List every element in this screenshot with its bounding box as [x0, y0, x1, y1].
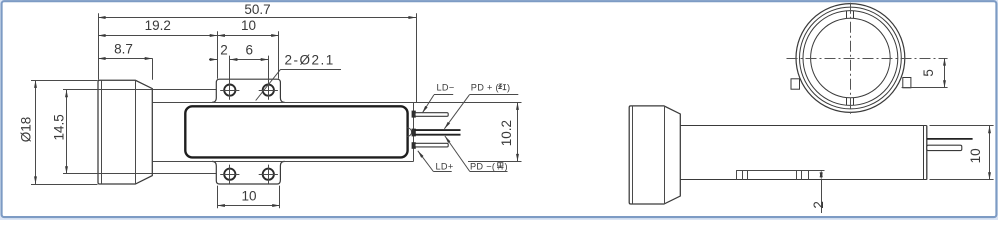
svg-text:50.7: 50.7	[244, 2, 270, 17]
svg-text:Ø18: Ø18	[19, 117, 34, 143]
svg-text:10: 10	[241, 18, 256, 33]
svg-text:LD+: LD+	[436, 161, 454, 171]
svg-text:8.7: 8.7	[114, 42, 133, 57]
svg-text:14.5: 14.5	[51, 114, 66, 140]
svg-text:2: 2	[220, 43, 228, 58]
svg-text:10: 10	[241, 189, 256, 204]
svg-text:6: 6	[246, 43, 254, 58]
svg-text:): )	[507, 82, 510, 92]
svg-text:LD−: LD−	[437, 82, 455, 92]
svg-text:10.2: 10.2	[499, 120, 514, 146]
svg-text:PD −(: PD −(	[470, 161, 495, 171]
svg-text:2: 2	[811, 201, 826, 209]
svg-text:2-Ø2.1: 2-Ø2.1	[285, 53, 335, 68]
svg-text:PD + (: PD + (	[471, 82, 499, 92]
svg-text:10: 10	[968, 148, 983, 163]
svg-text:): )	[505, 161, 508, 171]
svg-text:5: 5	[921, 69, 936, 77]
svg-text:19.2: 19.2	[145, 18, 171, 33]
